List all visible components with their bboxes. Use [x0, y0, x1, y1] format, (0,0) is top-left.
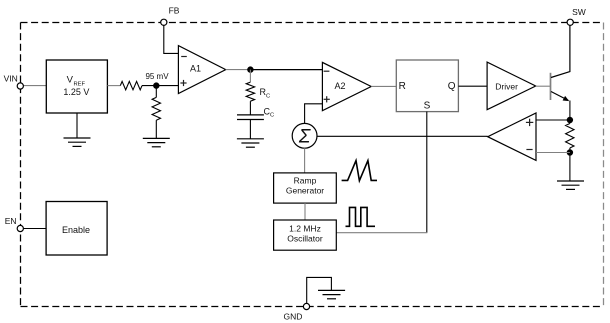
ground (CC)	[237, 139, 264, 147]
wire VIN to VREF	[23, 85, 46, 87]
pin EN	[5, 216, 24, 232]
pin GND	[284, 303, 310, 321]
block 1.2 MHz oscillator	[274, 220, 337, 250]
resistor (offset) horizontal	[120, 81, 142, 89]
svg-text:VIN: VIN	[4, 74, 18, 84]
wire VREF to ground	[76, 113, 78, 138]
wire comparator output to summer	[317, 135, 488, 137]
block VREF U1	[46, 60, 107, 113]
svg-text:GND: GND	[284, 311, 303, 321]
comparator current sense	[488, 113, 536, 160]
node A1 output	[247, 66, 253, 72]
ground (divider)	[143, 138, 170, 146]
wire latch Q to driver	[458, 85, 487, 87]
wire node down to resistor	[155, 86, 157, 98]
node emitter / sense top	[567, 117, 573, 123]
svg-text:C: C	[270, 113, 274, 119]
svg-text:1.25 V: 1.25 V	[63, 87, 89, 97]
capacitor CC	[237, 106, 274, 119]
wire sense to ground	[569, 153, 571, 182]
wire summer to ramp generator	[304, 148, 306, 173]
wire resistor to node	[142, 85, 178, 87]
wire EN to enable block	[23, 228, 46, 230]
pin FB	[161, 6, 180, 26]
node sense bottom	[567, 149, 573, 155]
wire GND to ground symbol	[307, 277, 332, 303]
svg-text:A2: A2	[334, 81, 345, 91]
block ramp generator	[274, 173, 337, 203]
svg-text:A1: A1	[190, 64, 201, 74]
resistor to ground (divider)	[152, 97, 160, 120]
wire node to A2 inverting input	[250, 69, 322, 71]
wire VREF to resistor	[107, 85, 120, 87]
svg-text:Σ: Σ	[298, 126, 311, 147]
svg-text:Oscillator: Oscillator	[287, 233, 323, 243]
wire latch S down to oscillator	[426, 112, 428, 233]
transistor Q1 NPN	[551, 25, 570, 120]
summer sigma	[292, 123, 317, 148]
wire A1 output to node	[226, 69, 251, 71]
node 95 mV	[145, 72, 169, 89]
svg-text:FB: FB	[169, 6, 180, 16]
svg-text:EN: EN	[5, 216, 17, 226]
block enable	[46, 202, 107, 256]
wire driver to transistor base	[536, 85, 551, 87]
svg-text:95 mV: 95 mV	[145, 72, 169, 81]
svg-text:SW: SW	[572, 7, 586, 17]
svg-text:Generator: Generator	[286, 185, 324, 195]
wire CC to ground	[249, 120, 251, 139]
driver	[487, 62, 536, 110]
svg-text:C: C	[266, 93, 270, 99]
wire RC to CC	[249, 101, 251, 115]
square waveform	[346, 207, 376, 226]
svg-text:Q: Q	[448, 81, 456, 92]
svg-text:S: S	[424, 101, 431, 112]
svg-text:Driver: Driver	[495, 81, 518, 91]
wire A2 output to latch R	[371, 85, 396, 87]
wire node stubs	[569, 120, 571, 124]
latch RS	[396, 60, 458, 112]
pin VIN	[4, 74, 24, 90]
wire ramp to oscillator	[304, 203, 306, 220]
wire summer to A2 + input	[305, 104, 323, 124]
wire comparator + input	[536, 119, 570, 121]
wire comparator - input	[536, 152, 570, 154]
svg-text:1.2 MHz: 1.2 MHz	[289, 224, 321, 234]
resistor RC	[246, 82, 270, 101]
pin SW	[567, 7, 586, 25]
svg-text:Enable: Enable	[62, 225, 90, 235]
sawtooth waveform	[342, 161, 377, 181]
ground (GND pin)	[318, 290, 345, 298]
resistor sense	[566, 124, 574, 149]
comparator A2	[322, 62, 371, 110]
op-amp A1	[178, 46, 225, 94]
wire node down to RC	[249, 70, 251, 83]
wire FB to A1 inverting input	[164, 25, 179, 54]
svg-text:R: R	[399, 81, 406, 92]
svg-text:Ramp: Ramp	[294, 176, 317, 186]
ground (sense)	[557, 181, 584, 189]
wire resistor to ground	[155, 120, 157, 138]
ground (VREF)	[64, 138, 91, 146]
